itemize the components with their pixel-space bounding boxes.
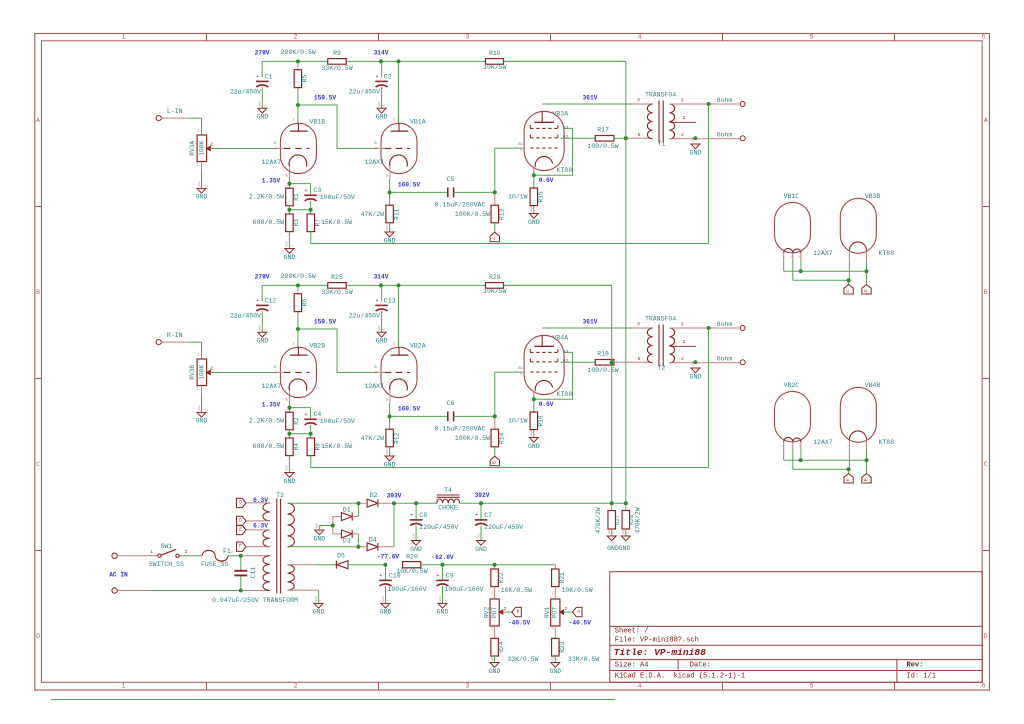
svg-text:VB4A: VB4A <box>553 334 569 341</box>
svg-text:2: 2 <box>294 683 298 690</box>
svg-text:-77.6V: -77.6V <box>377 554 400 561</box>
svg-text:7: 7 <box>865 445 867 448</box>
svg-text:C7: C7 <box>484 512 492 519</box>
svg-text:361V: 361V <box>583 95 598 102</box>
svg-text:1: 1 <box>552 594 554 598</box>
svg-text:C12: C12 <box>265 298 277 305</box>
svg-text:x: x <box>387 399 389 402</box>
svg-text:5: 5 <box>520 373 522 377</box>
svg-text:0.047uF/250V TRANSFORM: 0.047uF/250V TRANSFORM <box>212 597 298 604</box>
svg-text:GND: GND <box>475 546 487 553</box>
svg-text:10K/0.5W: 10K/0.5W <box>561 587 592 594</box>
svg-text:R6: R6 <box>301 299 308 307</box>
svg-text:GND: GND <box>608 529 611 535</box>
svg-text:GND: GND <box>530 206 533 212</box>
svg-text:GND: GND <box>437 609 449 616</box>
svg-text:2: 2 <box>231 552 233 556</box>
svg-text:Rev:: Rev: <box>907 661 924 669</box>
svg-text:62: 62 <box>563 358 569 364</box>
svg-text:279V: 279V <box>255 274 270 281</box>
svg-text:VB3A: VB3A <box>553 110 569 117</box>
svg-text:x: x <box>286 175 288 178</box>
svg-text:2.2K/0.5W: 2.2K/0.5W <box>249 194 284 201</box>
svg-text:0.6V: 0.6V <box>539 177 554 184</box>
svg-text:1: 1 <box>292 118 294 122</box>
svg-text:22u/450V: 22u/450V <box>349 89 380 96</box>
svg-text:2: 2 <box>683 339 686 345</box>
svg-text:+: + <box>256 74 259 80</box>
svg-text:220uF/450V: 220uF/450V <box>419 524 458 531</box>
svg-text:1: 1 <box>496 658 499 660</box>
svg-text:10K/5W: 10K/5W <box>483 64 507 71</box>
svg-text:GND: GND <box>256 114 268 121</box>
svg-text:8ohm: 8ohm <box>717 321 733 328</box>
svg-text:F: F <box>239 543 242 549</box>
svg-text:GND: GND <box>198 181 201 187</box>
svg-text:GND: GND <box>259 325 262 331</box>
svg-text:D3: D3 <box>343 538 351 545</box>
svg-text:1: 1 <box>613 532 616 534</box>
svg-text:GND: GND <box>552 655 555 661</box>
svg-text:R5: R5 <box>301 75 308 83</box>
svg-text:10/1W: 10/1W <box>508 194 528 201</box>
svg-text:R2: R2 <box>293 417 300 425</box>
svg-text:2: 2 <box>294 34 298 41</box>
svg-text:159.5V: 159.5V <box>314 95 337 102</box>
svg-text:10K/0.5W: 10K/0.5W <box>501 587 532 594</box>
svg-text:GND: GND <box>196 418 208 425</box>
svg-text:GND: GND <box>380 609 392 616</box>
svg-text:GND: GND <box>607 545 619 552</box>
svg-text:33K/0.5W: 33K/0.5W <box>321 289 352 296</box>
svg-text:VB2A: VB2A <box>410 343 426 350</box>
svg-text:VB1B: VB1B <box>310 119 326 126</box>
svg-text:F1: F1 <box>223 548 231 555</box>
svg-text:A: A <box>577 609 580 615</box>
svg-text:T1: T1 <box>658 140 666 147</box>
svg-text:4: 4 <box>638 683 642 690</box>
svg-text:3: 3 <box>196 388 198 392</box>
svg-text:GND: GND <box>378 101 381 107</box>
svg-text:+: + <box>256 298 259 304</box>
svg-text:7: 7 <box>865 256 867 259</box>
svg-text:R22: R22 <box>498 572 505 583</box>
svg-text:-40.5V: -40.5V <box>569 619 592 626</box>
svg-text:100K: 100K <box>198 141 205 156</box>
svg-text:GND: GND <box>315 596 318 602</box>
svg-text:R23: R23 <box>559 641 566 652</box>
svg-text:Title: VP-mini88: Title: VP-mini88 <box>614 647 706 658</box>
svg-text:0.6V: 0.6V <box>539 401 554 408</box>
svg-text:1: 1 <box>535 209 538 211</box>
svg-text:KT88: KT88 <box>879 250 895 257</box>
svg-text:1: 1 <box>386 599 389 601</box>
svg-text:GND: GND <box>196 194 208 201</box>
svg-text:1: 1 <box>122 34 126 41</box>
svg-text:2: 2 <box>185 549 188 555</box>
svg-text:1: 1 <box>290 468 293 470</box>
svg-text:12AX7: 12AX7 <box>364 383 384 390</box>
svg-text:1: 1 <box>393 118 395 122</box>
svg-text:GND: GND <box>284 478 296 485</box>
svg-text:R9: R9 <box>333 50 341 57</box>
svg-text:VB2C: VB2C <box>784 382 800 389</box>
svg-text:D: D <box>36 633 40 640</box>
svg-text:5: 5 <box>520 149 522 153</box>
svg-text:33K/0.5W: 33K/0.5W <box>321 65 352 72</box>
svg-text:1: 1 <box>263 328 266 330</box>
svg-text:47K/2W: 47K/2W <box>361 435 385 442</box>
svg-text:C9: C9 <box>446 573 454 580</box>
svg-text:F: F <box>863 478 869 481</box>
svg-text:R10: R10 <box>489 50 501 57</box>
svg-text:1: 1 <box>491 594 493 598</box>
svg-text:0ohm: 0ohm <box>717 131 733 138</box>
svg-text:100/0.5W: 100/0.5W <box>587 367 618 374</box>
svg-text:D4: D4 <box>369 536 377 543</box>
svg-text:RV2: RV2 <box>483 607 490 618</box>
svg-text:10/1W: 10/1W <box>508 418 528 425</box>
svg-text:15K/0.5W: 15K/0.5W <box>321 443 352 450</box>
svg-text:KT88: KT88 <box>557 167 573 174</box>
svg-text:D2: D2 <box>370 492 378 499</box>
svg-text:+: + <box>304 412 307 418</box>
svg-text:Sheet: /: Sheet: / <box>615 627 649 635</box>
svg-text:3: 3 <box>681 97 684 103</box>
svg-text:1: 1 <box>627 532 630 534</box>
svg-text:100K/0.5W: 100K/0.5W <box>455 211 490 218</box>
svg-text:R24: R24 <box>498 641 505 652</box>
svg-text:GND: GND <box>530 430 533 436</box>
svg-text:100K/0.5W: 100K/0.5W <box>455 435 490 442</box>
svg-text:GND: GND <box>528 219 540 226</box>
svg-text:C11: C11 <box>250 567 257 578</box>
svg-text:1: 1 <box>122 683 126 690</box>
svg-text:Date:: Date: <box>690 662 711 670</box>
svg-text:9: 9 <box>791 445 793 448</box>
svg-text:5: 5 <box>638 356 641 362</box>
svg-text:R4: R4 <box>293 443 300 451</box>
svg-text:C5: C5 <box>447 176 455 183</box>
svg-text:R14: R14 <box>499 433 506 444</box>
svg-text:GND: GND <box>412 533 415 539</box>
svg-text:22u/450V: 22u/450V <box>230 313 261 320</box>
svg-text:VB1C: VB1C <box>784 193 800 200</box>
svg-text:9: 9 <box>791 256 793 259</box>
svg-text:D1: D1 <box>343 506 351 513</box>
svg-text:KiCad E.D.A. kicad (5.1.2-1)-: KiCad E.D.A. kicad (5.1.2-1)-1 <box>615 672 745 680</box>
svg-text:1: 1 <box>150 549 153 555</box>
svg-text:+: + <box>304 188 307 194</box>
svg-text:5: 5 <box>810 34 814 41</box>
svg-text:3: 3 <box>491 628 493 632</box>
svg-text:GND: GND <box>489 668 501 675</box>
svg-text:GND: GND <box>491 655 494 661</box>
svg-text:GND: GND <box>286 241 289 247</box>
svg-text:1: 1 <box>383 104 386 106</box>
svg-text:1: 1 <box>202 408 205 410</box>
svg-text:3: 3 <box>681 321 684 327</box>
svg-text:R25: R25 <box>331 274 343 281</box>
svg-text:POT: POT <box>491 607 498 618</box>
svg-text:1: 1 <box>391 452 394 454</box>
svg-text:C13: C13 <box>384 298 396 305</box>
svg-text:279V: 279V <box>255 50 270 57</box>
svg-text:33K/0.5W: 33K/0.5W <box>507 656 538 663</box>
svg-text:2: 2 <box>683 115 686 121</box>
svg-text:L-IN: L-IN <box>167 108 183 115</box>
svg-text:4: 4 <box>782 445 784 448</box>
svg-text:63: 63 <box>563 349 569 355</box>
svg-text:1: 1 <box>482 536 485 538</box>
svg-text:1: 1 <box>417 536 420 538</box>
svg-text:GND: GND <box>286 465 289 471</box>
svg-text:GND: GND <box>619 545 631 552</box>
svg-text:33K/0.5W: 33K/0.5W <box>568 656 599 663</box>
svg-text:2: 2 <box>847 445 849 448</box>
svg-text:4: 4 <box>637 97 640 103</box>
svg-text:5: 5 <box>638 132 641 138</box>
svg-text:T3: T3 <box>276 492 284 499</box>
svg-text:361V: 361V <box>583 319 598 326</box>
svg-text:1: 1 <box>197 130 199 134</box>
svg-text:+: + <box>375 298 378 304</box>
svg-text:x: x <box>286 399 288 402</box>
svg-text:R18: R18 <box>597 351 609 358</box>
svg-text:C1: C1 <box>265 74 273 81</box>
svg-text:GND: GND <box>384 237 396 244</box>
svg-text:1: 1 <box>197 354 199 358</box>
svg-text:B: B <box>517 609 520 615</box>
svg-text:E: E <box>239 526 242 532</box>
svg-text:RV1: RV1 <box>544 607 551 618</box>
svg-text:6.3V: 6.3V <box>253 523 268 530</box>
svg-text:G1: G1 <box>518 367 523 371</box>
svg-text:100uF/50V: 100uF/50V <box>320 418 355 425</box>
svg-text:E: E <box>845 478 851 481</box>
svg-text:1.35V: 1.35V <box>262 401 281 408</box>
svg-text:D: D <box>984 633 988 640</box>
svg-text:2.2K/0.5W: 2.2K/0.5W <box>249 418 284 425</box>
svg-text:VB1A: VB1A <box>410 119 426 126</box>
svg-text:1: 1 <box>681 132 684 138</box>
svg-text:+: + <box>436 573 439 579</box>
svg-text:GND: GND <box>386 225 389 231</box>
svg-text:12AX7: 12AX7 <box>813 439 833 446</box>
svg-text:RV3B: RV3B <box>189 365 196 380</box>
svg-text:200K/0.5W: 200K/0.5W <box>281 273 316 280</box>
svg-text:TRANSFO4: TRANSFO4 <box>645 92 676 99</box>
svg-text:0.15uF/250VAC: 0.15uF/250VAC <box>435 426 486 433</box>
svg-text:3: 3 <box>552 628 554 632</box>
svg-text:5: 5 <box>799 256 801 259</box>
svg-text:-62.8V: -62.8V <box>431 554 454 561</box>
svg-text:100K: 100K <box>198 365 205 380</box>
svg-text:1: 1 <box>202 184 205 186</box>
svg-text:1: 1 <box>383 328 386 330</box>
svg-text:T2: T2 <box>658 364 666 371</box>
svg-text:10K/5W: 10K/5W <box>483 288 507 295</box>
svg-text:GND: GND <box>259 101 262 107</box>
svg-text:2: 2 <box>504 606 507 612</box>
svg-text:5: 5 <box>810 683 814 690</box>
svg-text:R-IN: R-IN <box>167 332 183 339</box>
svg-text:62: 62 <box>563 134 569 140</box>
svg-text:VB3B: VB3B <box>865 193 881 200</box>
svg-text:470K/2W: 470K/2W <box>634 507 641 533</box>
svg-text:R12: R12 <box>393 432 400 443</box>
svg-text:10K/0.5W: 10K/0.5W <box>396 568 427 575</box>
svg-text:160.5V: 160.5V <box>398 182 421 189</box>
svg-text:RV3A: RV3A <box>189 141 196 156</box>
svg-text:+: + <box>379 573 382 579</box>
svg-text:Size: A4: Size: A4 <box>615 662 649 670</box>
svg-text:GND: GND <box>376 338 388 345</box>
svg-text:GND: GND <box>376 114 388 121</box>
svg-text:GND: GND <box>382 596 385 602</box>
svg-text:6.3V: 6.3V <box>253 497 268 504</box>
svg-text:314V: 314V <box>374 274 389 281</box>
svg-text:R17: R17 <box>597 127 609 134</box>
svg-text:GND: GND <box>386 449 389 455</box>
svg-text:A: A <box>491 237 497 240</box>
svg-text:680/0.5W: 680/0.5W <box>253 443 284 450</box>
svg-text:1: 1 <box>391 228 394 230</box>
svg-text:C10: C10 <box>389 573 401 580</box>
svg-text:3: 3 <box>466 34 470 41</box>
svg-text:6: 6 <box>982 34 986 41</box>
svg-text:1: 1 <box>320 526 323 528</box>
svg-text:220uF/450V: 220uF/450V <box>484 524 523 531</box>
svg-text:C6: C6 <box>447 400 455 407</box>
svg-text:x: x <box>387 175 389 178</box>
svg-text:1: 1 <box>681 356 684 362</box>
svg-text:C: C <box>984 461 988 468</box>
svg-text:GND: GND <box>313 609 325 616</box>
svg-text:1: 1 <box>290 244 293 246</box>
svg-text:R27: R27 <box>614 515 621 525</box>
svg-text:1: 1 <box>292 342 294 346</box>
svg-text:6: 6 <box>982 683 986 690</box>
svg-text:GND: GND <box>549 668 561 675</box>
svg-text:GND: GND <box>384 461 396 468</box>
svg-text:GND: GND <box>690 373 702 380</box>
svg-text:R13: R13 <box>499 209 506 220</box>
svg-text:R11: R11 <box>393 208 400 219</box>
svg-text:R26: R26 <box>489 274 501 281</box>
svg-text:22u/450V: 22u/450V <box>349 313 380 320</box>
svg-text:12AX7: 12AX7 <box>364 159 384 166</box>
svg-text:C8: C8 <box>419 512 427 519</box>
svg-text:15K/0.5W: 15K/0.5W <box>321 219 352 226</box>
svg-text:100/0.5W: 100/0.5W <box>587 143 618 150</box>
svg-text:GND: GND <box>439 596 442 602</box>
svg-text:1: 1 <box>535 433 538 435</box>
svg-text:GND: GND <box>410 546 422 553</box>
svg-text:12AX7: 12AX7 <box>262 159 282 166</box>
svg-text:CHOKE: CHOKE <box>438 504 458 511</box>
svg-text:8ohm: 8ohm <box>717 97 733 104</box>
svg-text:R16: R16 <box>538 415 545 426</box>
svg-text:160.5V: 160.5V <box>398 406 421 413</box>
svg-text:File: VP-mini88?.sch: File: VP-mini88?.sch <box>615 637 699 645</box>
svg-text:Id: 1/1: Id: 1/1 <box>907 672 936 680</box>
svg-text:100uF/160V: 100uF/160V <box>388 586 427 593</box>
svg-text:B: B <box>36 289 40 296</box>
svg-text:5: 5 <box>799 445 801 448</box>
svg-text:-40.5V: -40.5V <box>508 619 531 626</box>
svg-text:R1: R1 <box>293 193 300 201</box>
svg-text:C: C <box>845 289 851 292</box>
svg-text:A: A <box>36 117 40 124</box>
svg-text:R3: R3 <box>293 219 300 227</box>
svg-text:FUSE_SS: FUSE_SS <box>201 561 228 568</box>
svg-text:B: B <box>984 289 988 296</box>
svg-text:C: C <box>36 461 40 468</box>
svg-text:12AX7: 12AX7 <box>262 383 282 390</box>
svg-text:12AX7: 12AX7 <box>813 250 833 257</box>
svg-text:393V: 393V <box>387 493 402 500</box>
svg-text:63: 63 <box>563 125 569 131</box>
svg-text:POT: POT <box>552 607 559 618</box>
svg-text:470K/2W: 470K/2W <box>595 507 602 533</box>
svg-text:0.15uF/250VAC: 0.15uF/250VAC <box>435 202 486 209</box>
svg-text:KT88: KT88 <box>879 439 895 446</box>
svg-text:GND: GND <box>316 523 319 529</box>
svg-text:159.5V: 159.5V <box>314 319 337 326</box>
svg-text:+: + <box>375 74 378 80</box>
svg-text:C2: C2 <box>384 74 392 81</box>
svg-text:GND: GND <box>477 533 480 539</box>
svg-text:R21: R21 <box>559 572 566 583</box>
svg-text:C: C <box>239 499 242 505</box>
svg-text:1: 1 <box>443 599 446 601</box>
svg-text:R15: R15 <box>538 191 545 202</box>
svg-text:3: 3 <box>196 164 198 168</box>
svg-text:GND: GND <box>378 325 381 331</box>
svg-text:+: + <box>410 512 413 518</box>
svg-text:1: 1 <box>393 342 395 346</box>
svg-text:+: + <box>475 512 478 518</box>
svg-text:314V: 314V <box>374 50 389 57</box>
svg-text:1: 1 <box>320 599 323 601</box>
svg-text:A: A <box>984 117 988 124</box>
svg-text:R20: R20 <box>406 553 418 560</box>
svg-text:GND: GND <box>256 338 268 345</box>
svg-text:392V: 392V <box>475 492 490 499</box>
svg-text:22u/450V: 22u/450V <box>230 89 261 96</box>
svg-text:1: 1 <box>556 658 559 660</box>
svg-text:GND: GND <box>198 405 201 411</box>
svg-text:200K/0.5W: 200K/0.5W <box>281 49 316 56</box>
svg-text:680/0.5W: 680/0.5W <box>253 219 284 226</box>
svg-text:1: 1 <box>696 140 699 142</box>
svg-text:GND: GND <box>690 149 702 156</box>
svg-text:1: 1 <box>204 551 206 555</box>
svg-text:1.35V: 1.35V <box>262 177 281 184</box>
svg-text:4: 4 <box>638 34 642 41</box>
svg-text:4: 4 <box>637 321 640 327</box>
svg-text:G1: G1 <box>518 143 523 147</box>
svg-text:B: B <box>491 461 497 464</box>
svg-text:0ohm: 0ohm <box>717 355 733 362</box>
svg-text:TRANSFO4: TRANSFO4 <box>645 316 676 323</box>
svg-text:1: 1 <box>263 104 266 106</box>
svg-text:VB4B: VB4B <box>865 382 881 389</box>
svg-text:1: 1 <box>696 364 699 366</box>
svg-text:GND: GND <box>622 529 625 535</box>
svg-text:AC IN: AC IN <box>109 571 128 578</box>
